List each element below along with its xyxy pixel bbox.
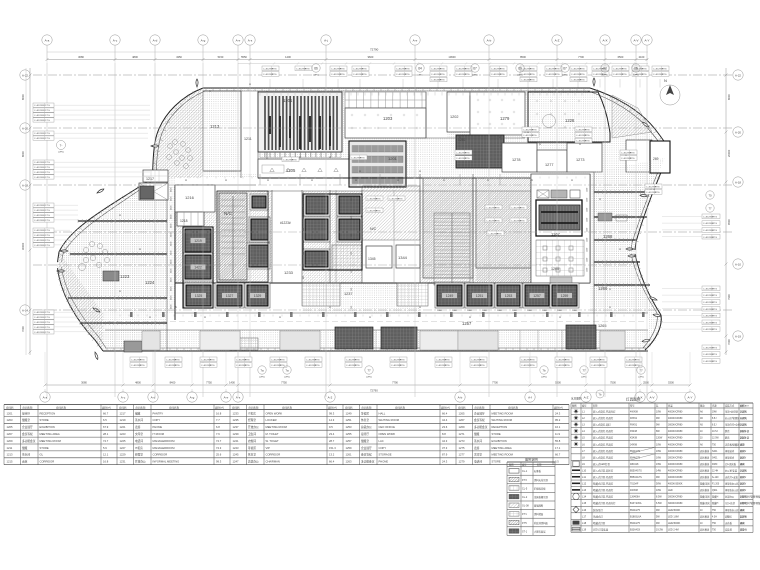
svg-text:72790: 72790: [370, 389, 378, 393]
svg-text:A: A: [355, 178, 357, 182]
svg-text:1400: 1400: [285, 55, 291, 59]
svg-text:17.1: 17.1: [555, 446, 561, 450]
svg-text:总裁办公: 总裁办公: [361, 425, 372, 429]
svg-text:P.T5: P.T5: [522, 522, 527, 525]
svg-text:P.TG: P.TG: [45, 327, 50, 329]
svg-text:P.TG: P.TG: [712, 316, 717, 318]
svg-text:L16: L16: [582, 509, 587, 512]
svg-text:C+S12/S99: C+S12/S99: [34, 327, 46, 329]
svg-text:P.TG: P.TG: [45, 240, 50, 242]
svg-text:A: A: [249, 82, 251, 86]
svg-text:A-18: A-18: [22, 184, 28, 188]
svg-text:1224: 1224: [145, 280, 155, 285]
svg-text:74.7: 74.7: [103, 439, 109, 443]
svg-text:A: A: [487, 178, 489, 182]
svg-text:P.TG: P.TG: [712, 288, 717, 290]
svg-text:3080: 3080: [78, 55, 84, 59]
svg-text:P.TG: P.TG: [360, 157, 365, 159]
svg-text:LOCKER: LOCKER: [266, 418, 277, 422]
svg-text:P.TG: P.TG: [45, 110, 50, 112]
svg-text:装饰吊灯: 装饰吊灯: [593, 508, 603, 512]
svg-text:P.TG: P.TG: [585, 129, 590, 131]
svg-text:150: 150: [351, 234, 353, 237]
svg-text:1275: 1275: [459, 446, 465, 450]
svg-text:STORE: STORE: [492, 460, 501, 464]
svg-text:P.TG: P.TG: [555, 68, 560, 70]
svg-text:C+S12/S99: C+S12/S99: [34, 230, 46, 232]
svg-text:C+S12/S99: C+S12/S99: [34, 138, 46, 140]
svg-text:1-10V: 1-10V: [740, 412, 747, 414]
svg-text:1263: 1263: [346, 460, 352, 464]
svg-text:8544/275: 8544/275: [630, 522, 641, 525]
svg-text:4000K/CRI80: 4000K/CRI80: [668, 450, 683, 453]
svg-text:900: 900: [303, 240, 305, 243]
svg-text:文印室: 文印室: [135, 432, 143, 436]
svg-text:9600: 9600: [368, 55, 374, 59]
svg-text:7900: 7900: [727, 294, 731, 300]
svg-text:P.T1: P.T1: [522, 513, 527, 516]
svg-text:3000K/CRI80: 3000K/CRI80: [668, 496, 683, 499]
svg-text:P.TG: P.TG: [210, 365, 215, 367]
svg-text:1-10V: 1-10V: [740, 503, 747, 505]
svg-text:150: 150: [351, 252, 353, 255]
svg-text:2500: 2500: [643, 381, 649, 385]
svg-text:L14: L14: [582, 496, 587, 499]
svg-text:房间名称: 房间名称: [475, 405, 486, 409]
svg-text:企业展厅: 企业展厅: [361, 446, 372, 450]
svg-text:MANAGERROOM: MANAGERROOM: [153, 446, 176, 450]
svg-text:房间名称: 房间名称: [249, 405, 260, 409]
svg-text:房间码: 房间码: [119, 405, 127, 409]
svg-text:8.8: 8.8: [442, 432, 446, 436]
svg-text:P.TG: P.TG: [580, 74, 585, 76]
svg-text:P.TG: P.TG: [45, 133, 50, 135]
svg-text:1235: 1235: [233, 418, 239, 422]
svg-text:(2F6): (2F6): [633, 75, 638, 77]
svg-text:A-b: A-b: [487, 39, 492, 43]
svg-text:P.TG: P.TG: [712, 237, 717, 239]
svg-text:LED: LED: [740, 510, 745, 512]
svg-text:P.TG: P.TG: [662, 68, 667, 70]
svg-text:L10: L10: [582, 469, 587, 472]
svg-text:嵌入式筒灯,已调灯: 嵌入式筒灯,已调灯: [593, 449, 614, 453]
svg-text:2400: 2400: [572, 310, 578, 312]
svg-text:LED/3000K: LED/3000K: [668, 522, 681, 525]
svg-text:P.TG: P.TG: [405, 68, 410, 70]
svg-text:开放办公: 开放办公: [135, 460, 146, 464]
svg-text:A: A: [539, 142, 541, 146]
svg-text:C+S12/S99: C+S12/S99: [34, 105, 46, 107]
svg-text:24.3: 24.3: [555, 411, 561, 415]
svg-text:3000K/CRI80: 3000K/CRI80: [668, 456, 683, 459]
svg-text:P.TG: P.TG: [440, 74, 445, 76]
svg-text:99.3: 99.3: [329, 411, 335, 415]
svg-text:1345: 1345: [368, 257, 376, 261]
svg-text:48D418: 48D418: [630, 463, 639, 466]
svg-text:P.TG: P.TG: [600, 359, 605, 361]
svg-text:P.TG: P.TG: [440, 80, 445, 82]
svg-text:A: A: [609, 305, 611, 309]
svg-text:5.9: 5.9: [103, 446, 107, 450]
svg-text:P.TG: P.TG: [45, 162, 50, 164]
svg-text:62: 62: [603, 67, 607, 71]
svg-text:P.TG: P.TG: [340, 68, 345, 70]
svg-text:P.TG: P.TG: [45, 332, 50, 334]
svg-text:8.5J: 8.5J: [712, 425, 716, 427]
svg-text:4WX08: 4WX08: [630, 411, 639, 414]
svg-text:A: A: [599, 197, 601, 201]
svg-text:VIP: VIP: [266, 446, 271, 450]
svg-text:1279: 1279: [500, 116, 510, 121]
svg-text:A-22: A-22: [735, 74, 741, 78]
svg-text:吊线式灯: 吊线式灯: [593, 514, 603, 518]
svg-text:LED: LED: [740, 529, 745, 531]
svg-text:L12: L12: [582, 483, 587, 486]
svg-text:6.5: 6.5: [103, 418, 107, 422]
svg-text:B1883L6A: B1883L6A: [630, 515, 642, 518]
svg-text:28.1: 28.1: [103, 432, 109, 436]
svg-text:23.4: 23.4: [329, 432, 335, 436]
svg-text:P.TG: P.TG: [585, 141, 590, 143]
svg-text:19.2W: 19.2W: [656, 528, 664, 531]
svg-text:IT机房: IT机房: [248, 411, 256, 415]
svg-text:4800: 4800: [132, 55, 138, 59]
svg-text:COPY: COPY: [379, 446, 387, 450]
svg-text:1219: 1219: [194, 239, 202, 243]
svg-text:8.5J: 8.5J: [712, 418, 716, 420]
svg-text:A: A: [139, 247, 141, 251]
svg-text:开放办公: 开放办公: [248, 425, 259, 429]
svg-text:1202: 1202: [450, 115, 458, 119]
svg-text:WAITING ROOM: WAITING ROOM: [379, 418, 400, 422]
svg-text:14.3: 14.3: [329, 418, 335, 422]
svg-text:7a: 7a: [260, 369, 264, 373]
svg-text:储藏: 储藏: [474, 432, 480, 436]
svg-text:(2F6): (2F6): [517, 75, 522, 77]
svg-text:C+S12/S99: C+S12/S99: [34, 322, 46, 324]
svg-text:4WX08: 4WX08: [630, 489, 639, 492]
svg-text:C+S12/S99: C+S12/S99: [34, 167, 46, 169]
svg-text:A: A: [397, 178, 399, 182]
svg-text:1247: 1247: [233, 460, 239, 464]
svg-text:9.5: 9.5: [329, 425, 333, 429]
svg-text:电话间: 电话间: [135, 439, 143, 443]
svg-text:嵌入式筒灯,已调灯: 嵌入式筒灯,已调灯: [593, 436, 614, 440]
svg-text:P.TG: P.TG: [712, 295, 717, 297]
svg-text:P.TG: P.TG: [45, 177, 50, 179]
svg-text:A-g: A-g: [190, 396, 195, 400]
svg-text:1229: 1229: [120, 453, 126, 457]
svg-text:1251: 1251: [476, 294, 484, 298]
svg-text:19W: 19W: [712, 412, 718, 414]
svg-text:A-c: A-c: [113, 39, 118, 43]
svg-text:12.5W: 12.5W: [712, 438, 719, 440]
svg-text:1325: 1325: [195, 294, 203, 298]
svg-text:P.TG: P.TG: [355, 359, 360, 361]
svg-text:1277: 1277: [459, 453, 465, 457]
svg-text:A: A: [209, 89, 211, 93]
svg-text:P.TG: P.TG: [175, 359, 180, 361]
svg-text:CORRIDOR: CORRIDOR: [153, 453, 168, 457]
svg-text:A: A: [359, 169, 361, 173]
svg-text:P.TG: P.TG: [520, 207, 525, 209]
svg-text:19W: 19W: [656, 463, 662, 466]
svg-text:嵌入式筒灯,已调灯: 嵌入式筒灯,已调灯: [593, 442, 614, 446]
svg-text:P.TG: P.TG: [580, 68, 585, 70]
svg-text:P.TG: P.TG: [712, 216, 717, 218]
svg-text:企业展厅: 企业展厅: [22, 425, 33, 429]
svg-text:储藏: 储藏: [22, 446, 28, 450]
svg-text:水具图例: 水具图例: [571, 397, 582, 401]
svg-text:OPEN WORK: OPEN WORK: [266, 411, 283, 415]
svg-text:150: 150: [351, 216, 353, 219]
svg-text:STORE: STORE: [40, 418, 49, 422]
svg-text:P.TG: P.TG: [712, 347, 717, 349]
svg-text:STORE: STORE: [40, 446, 49, 450]
svg-text:4000K/CRI80: 4000K/CRI80: [668, 476, 683, 479]
svg-text:(2F6): (2F6): [472, 75, 477, 77]
svg-text:4000K/3000K: 4000K/3000K: [668, 483, 683, 486]
svg-text:4000K/CRI80: 4000K/CRI80: [668, 430, 683, 433]
svg-text:F1.200: F1.200: [712, 484, 720, 486]
svg-text:99.3: 99.3: [216, 460, 222, 464]
svg-text:A: A: [204, 315, 206, 319]
svg-text:P.TG: P.TG: [655, 192, 660, 194]
svg-text:CHAIRMAN: CHAIRMAN: [266, 460, 280, 464]
svg-text:(2F6): (2F6): [417, 75, 422, 77]
svg-text:44.4: 44.4: [442, 418, 448, 422]
svg-text:P.TG: P.TG: [530, 74, 535, 76]
svg-text:P.TG: P.TG: [175, 365, 180, 367]
svg-text:IT机房: IT机房: [135, 446, 143, 450]
svg-text:1251: 1251: [346, 418, 352, 422]
svg-text:1253: 1253: [505, 294, 513, 298]
svg-text:4000K/CRI80: 4000K/CRI80: [668, 411, 683, 414]
svg-text:灯具图例: 灯具图例: [626, 397, 641, 402]
svg-text:房间名称: 房间名称: [169, 405, 180, 409]
svg-text:CL-5: CL-5: [522, 487, 528, 490]
svg-text:P.TG: P.TG: [140, 365, 145, 367]
svg-text:L15: L15: [582, 502, 587, 505]
svg-text:120W: 120W: [656, 437, 663, 440]
svg-text:1257: 1257: [462, 321, 472, 326]
svg-text:A: A: [185, 178, 187, 182]
svg-text:1-10V: 1-10V: [740, 418, 747, 420]
svg-text:4000K/CRI80: 4000K/CRI80: [668, 417, 683, 420]
svg-text:1-10V: 1-10V: [740, 497, 747, 499]
svg-text:16.8: 16.8: [216, 411, 222, 415]
svg-text:1257: 1257: [346, 439, 352, 443]
svg-text:150: 150: [351, 198, 353, 201]
svg-text:1216: 1216: [185, 195, 195, 200]
svg-text:A: A: [119, 213, 121, 217]
svg-text:P.TG: P.TG: [45, 205, 50, 207]
svg-text:16.1: 16.1: [555, 425, 561, 429]
svg-text:1237: 1237: [344, 292, 352, 296]
svg-text:A: A: [531, 178, 533, 182]
svg-text:P.TG: P.TG: [445, 365, 450, 367]
svg-text:P.TG: P.TG: [600, 365, 605, 367]
svg-text:7-: 7-: [60, 144, 63, 148]
svg-text:走廊: 走廊: [135, 425, 141, 429]
svg-text:W. TOILET: W. TOILET: [266, 439, 280, 443]
svg-text:P.TG: P.TG: [580, 80, 585, 82]
svg-text:P.TG: P.TG: [45, 235, 50, 237]
svg-text:66.7: 66.7: [555, 453, 561, 457]
svg-text:C+S12/S99: C+S12/S99: [34, 317, 46, 319]
svg-text:RECEPTION: RECEPTION: [40, 411, 56, 415]
svg-text:1-10V: 1-10V: [740, 431, 747, 433]
svg-text:暗藏式灯带,已调光灯: 暗藏式灯带,已调光灯: [593, 501, 616, 505]
svg-text:Q911: Q911: [712, 490, 718, 492]
svg-text:14W: 14W: [656, 469, 662, 472]
svg-text:A-a: A-a: [45, 39, 50, 43]
svg-text:24.3: 24.3: [442, 460, 448, 464]
svg-text:C+S12/S99: C+S12/S99: [34, 235, 46, 237]
svg-text:A: A: [225, 178, 227, 182]
svg-text:1205: 1205: [7, 425, 13, 429]
svg-text:储藏室: 储藏室: [361, 439, 369, 443]
svg-text:7000: 7000: [21, 326, 25, 332]
svg-text:66.4: 66.4: [442, 411, 448, 415]
svg-text:P.TG: P.TG: [305, 68, 310, 70]
svg-text:1243: 1243: [233, 446, 239, 450]
svg-text:66.4: 66.4: [329, 460, 335, 464]
svg-text:P.TG: P.TG: [465, 68, 470, 70]
svg-text:P.TG: P.TG: [712, 309, 717, 311]
svg-text:6.8: 6.8: [216, 425, 220, 429]
svg-text:1329: 1329: [254, 294, 262, 298]
svg-text:900: 900: [303, 276, 305, 279]
svg-text:C+S12/S99: C+S12/S99: [34, 215, 46, 217]
svg-text:P.TG: P.TG: [245, 365, 250, 367]
svg-text:暗藏式灯带: 暗藏式灯带: [593, 521, 606, 525]
svg-text:MEETING ROOM: MEETING ROOM: [492, 411, 514, 415]
svg-text:PHONE: PHONE: [153, 425, 163, 429]
svg-text:8000: 8000: [21, 94, 25, 100]
svg-text:900: 900: [303, 204, 305, 207]
svg-text:C+S12/S99: C+S12/S99: [34, 162, 46, 164]
svg-text:P.TG: P.TG: [45, 220, 50, 222]
svg-text:P.TG: P.TG: [400, 359, 405, 361]
svg-text:1500: 1500: [587, 218, 589, 222]
svg-text:6.5: 6.5: [555, 460, 559, 464]
svg-text:P.TG: P.TG: [355, 365, 360, 367]
svg-text:C+S12/S99: C+S12/S99: [34, 133, 46, 135]
svg-text:12.1: 12.1: [103, 453, 109, 457]
svg-text:(2F6): (2F6): [562, 75, 567, 77]
svg-text:MANAGERROOM: MANAGERROOM: [153, 439, 176, 443]
svg-text:P.TG: P.TG: [465, 158, 470, 160]
svg-text:企业展厅: 企业展厅: [474, 411, 485, 415]
svg-text:茶水间: 茶水间: [135, 418, 143, 422]
svg-text:67.9: 67.9: [103, 425, 109, 429]
svg-text:6500: 6500: [618, 55, 624, 59]
svg-text:储藏室: 储藏室: [22, 418, 30, 422]
svg-text:嵌入式筒灯,已调灯: 嵌入式筒灯,已调灯: [593, 416, 614, 420]
svg-text:4000K/CRI80: 4000K/CRI80: [668, 443, 683, 446]
svg-text:7010AF: 7010AF: [630, 483, 639, 486]
svg-text:房间名称: 房间名称: [362, 405, 373, 409]
svg-text:150: 150: [351, 288, 353, 291]
svg-text:1253: 1253: [346, 425, 352, 429]
svg-text:L17: L17: [582, 515, 587, 518]
svg-text:IT ROOM: IT ROOM: [153, 432, 165, 436]
svg-text:66: 66: [314, 67, 318, 71]
svg-text:8000: 8000: [21, 151, 25, 157]
svg-text:P.TG: P.TG: [495, 207, 500, 209]
svg-text:P.TG: P.TG: [712, 302, 717, 304]
svg-text:F8X91: F8X91: [630, 424, 638, 427]
svg-text:1203: 1203: [383, 116, 393, 121]
svg-text:A-V: A-V: [633, 39, 638, 43]
svg-text:嵌入式筒灯,已调光灯: 嵌入式筒灯,已调光灯: [593, 410, 616, 414]
svg-text:1209: 1209: [7, 439, 13, 443]
svg-text:900: 900: [303, 228, 305, 231]
svg-text:P.TG: P.TG: [272, 74, 277, 76]
svg-text:95.2: 95.2: [555, 418, 561, 422]
svg-text:A-X: A-X: [602, 39, 607, 43]
svg-text:900: 900: [303, 192, 305, 195]
svg-text:P.TG: P.TG: [630, 152, 635, 154]
svg-text:8544/275: 8544/275: [630, 509, 641, 512]
svg-text:3080: 3080: [81, 381, 87, 385]
svg-text:A-20: A-20: [735, 131, 741, 135]
svg-text:A-V: A-V: [649, 396, 654, 400]
svg-text:2400: 2400: [467, 310, 473, 312]
svg-text:A-s: A-s: [236, 396, 241, 400]
svg-text:1-10V: 1-10V: [740, 484, 747, 486]
svg-text:P.TG: P.TG: [45, 210, 50, 212]
svg-text:LAC: LAC: [379, 439, 384, 443]
svg-text:1239: 1239: [233, 432, 239, 436]
svg-text:1249: 1249: [346, 411, 352, 415]
svg-text:房间码: 房间码: [232, 405, 240, 409]
svg-text:1201: 1201: [388, 156, 398, 161]
svg-text:LED: LED: [740, 444, 745, 446]
svg-text:5300: 5300: [668, 381, 674, 385]
svg-text:1255: 1255: [346, 432, 352, 436]
svg-text:嵌入式灯带,已调灯: 嵌入式灯带,已调灯: [593, 475, 614, 479]
svg-text:65: 65: [634, 67, 638, 71]
svg-text:P.TG: P.TG: [400, 365, 405, 367]
svg-text:C+S12/S99: C+S12/S99: [34, 110, 46, 112]
svg-text:1266: 1266: [598, 286, 608, 291]
svg-text:44.3: 44.3: [442, 439, 448, 443]
svg-text:A-Z: A-Z: [555, 39, 560, 43]
svg-text:嵌入式筒灯,调灯: 嵌入式筒灯,调灯: [593, 423, 611, 427]
svg-text:C+S12/S99: C+S12/S99: [34, 245, 46, 247]
svg-text:LED 1.8M: LED 1.8M: [668, 515, 679, 518]
svg-text:P.TG: P.TG: [45, 322, 50, 324]
svg-text:P.TG: P.TG: [398, 198, 403, 200]
svg-text:4000K/CRI80: 4000K/CRI80: [668, 463, 683, 466]
svg-text:1500: 1500: [587, 248, 589, 252]
svg-text:77: 77: [708, 206, 712, 210]
svg-text:50W: 50W: [656, 483, 662, 486]
svg-text:12.4H: 12.4H: [712, 470, 718, 472]
svg-text:LED 2.4M: LED 2.4M: [668, 528, 679, 531]
svg-text:1245: 1245: [233, 453, 239, 457]
svg-text:卫生间: 卫生间: [248, 432, 256, 436]
svg-text:PHONE: PHONE: [379, 460, 389, 464]
svg-text:A: A: [149, 315, 151, 319]
svg-text:LED: LED: [740, 523, 745, 525]
svg-text:1273: 1273: [576, 158, 584, 162]
svg-text:7000: 7000: [727, 339, 731, 345]
svg-text:1273: 1273: [459, 439, 465, 443]
svg-text:67: 67: [563, 67, 567, 71]
